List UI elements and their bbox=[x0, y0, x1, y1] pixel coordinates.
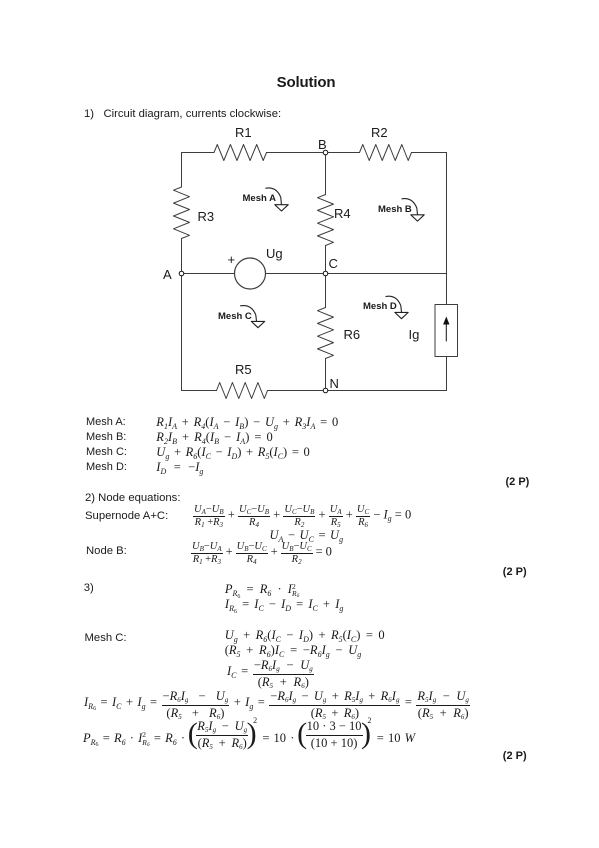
mesh D equation bbox=[156, 460, 203, 475]
(2P) first bbox=[506, 476, 530, 488]
wire: R2 to top-right corner bbox=[412, 152, 447, 154]
power definition bbox=[225, 582, 299, 599]
mesh D arrow bbox=[386, 296, 408, 319]
solve for IC bbox=[227, 659, 314, 688]
mesh A arrow bbox=[266, 188, 288, 211]
node A bbox=[179, 271, 184, 276]
wire: R5 to node N bbox=[268, 390, 326, 392]
label R4 bbox=[334, 206, 351, 221]
supernode equation bbox=[193, 504, 411, 528]
mesh C equation restated bbox=[225, 628, 385, 643]
node C bbox=[323, 271, 328, 276]
resistor R5 bbox=[217, 383, 268, 399]
supernode label bbox=[85, 510, 168, 522]
wire: bottom-left corner to R5 bbox=[182, 390, 217, 392]
wire: R3 to node A bbox=[181, 239, 183, 274]
label R1 bbox=[235, 125, 252, 140]
node B bbox=[323, 150, 328, 155]
section 2 heading bbox=[85, 492, 180, 504]
title bbox=[0, 74, 599, 91]
label B bbox=[318, 137, 327, 152]
label mesh D bbox=[363, 301, 397, 312]
constraint equation bbox=[270, 528, 344, 543]
wire: R1 to node B bbox=[267, 152, 326, 154]
label Ug bbox=[266, 246, 283, 261]
power computation line bbox=[83, 720, 415, 749]
mesh equation labels bbox=[86, 416, 126, 428]
mesh A equation bbox=[156, 415, 338, 430]
wire: node A to voltage source bbox=[182, 273, 235, 275]
label R6 bbox=[344, 327, 361, 342]
label Ig bbox=[409, 327, 420, 342]
label N bbox=[330, 376, 339, 391]
wire: node B to R2 bbox=[326, 152, 360, 154]
item 1 heading bbox=[84, 108, 281, 120]
voltage source Ug bbox=[235, 258, 266, 289]
label mesh B bbox=[378, 204, 412, 215]
label mesh A bbox=[243, 193, 276, 204]
label R3 bbox=[198, 209, 215, 224]
mesh C label bbox=[85, 632, 127, 644]
wire: Ig to bottom-right corner bbox=[446, 357, 448, 391]
wire: node C to right wire bbox=[326, 273, 447, 275]
circuit schematic SVG bbox=[0, 0, 599, 410]
label C bbox=[329, 256, 338, 271]
wire: voltage source to node C bbox=[266, 273, 326, 275]
node B equation bbox=[191, 541, 332, 565]
mesh C equation bbox=[156, 445, 309, 460]
IR6 derivation line bbox=[84, 690, 470, 719]
label plus of Ug bbox=[228, 252, 236, 267]
wire: left branch top (corner to R3) bbox=[181, 153, 183, 188]
resistor R1 bbox=[214, 145, 267, 161]
resistor R3 bbox=[174, 187, 190, 239]
wire: R4 to node C bbox=[325, 246, 327, 274]
wire: node B down to R4 bbox=[325, 153, 327, 195]
(2P) second bbox=[503, 566, 527, 578]
mesh B arrow bbox=[402, 199, 424, 222]
wire: top-left corner to R1 bbox=[182, 152, 215, 154]
node B label bbox=[86, 545, 127, 557]
current source Ig bbox=[435, 305, 458, 357]
label R2 bbox=[371, 125, 388, 140]
resistor R6 bbox=[318, 308, 334, 359]
wire: node N to bottom-right corner bbox=[326, 390, 447, 392]
wire: node A down to bottom-left corner bbox=[181, 274, 183, 391]
wire: R6 to node N bbox=[325, 359, 327, 391]
resistor R4 bbox=[318, 195, 334, 246]
current definition bbox=[225, 597, 343, 612]
rearranged equation bbox=[225, 643, 362, 658]
wire: node C down to R6 bbox=[325, 274, 327, 308]
label R5 bbox=[235, 362, 252, 377]
label mesh C bbox=[218, 311, 252, 322]
resistor R2 bbox=[360, 145, 412, 161]
wire: right branch top (corner to Ig) bbox=[446, 153, 448, 305]
label A bbox=[163, 267, 172, 282]
section 3 heading bbox=[84, 582, 94, 594]
mesh C arrow bbox=[241, 306, 265, 328]
(2P) third bbox=[503, 750, 527, 762]
node N bbox=[323, 388, 328, 393]
mesh B equation bbox=[156, 430, 272, 445]
